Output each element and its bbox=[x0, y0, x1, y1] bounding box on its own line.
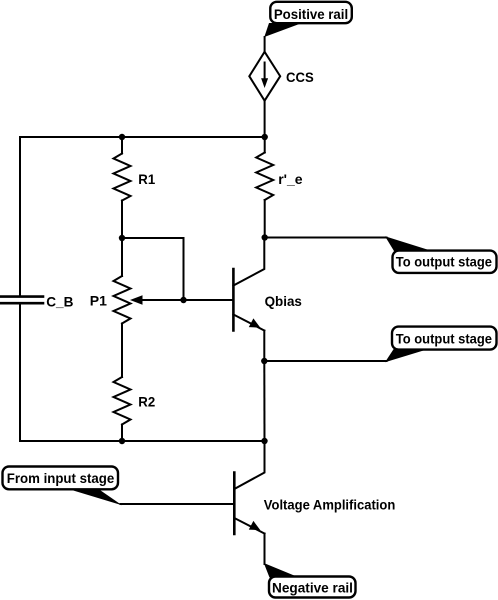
current source CCS bbox=[249, 52, 313, 101]
svg-text:r'_e: r'_e bbox=[278, 171, 303, 187]
wire wiper arrow bbox=[130, 295, 184, 304]
wire R1 to P1 junction bbox=[121, 201, 123, 239]
node top-rail / R1 junction bbox=[119, 134, 125, 140]
wire junction to P1 bbox=[121, 238, 123, 276]
transistor Qbias bbox=[184, 238, 303, 362]
wire CCS to top rail bbox=[264, 101, 266, 137]
wire P1 to R2 bbox=[121, 324, 123, 378]
wire top rail to r'_e bbox=[264, 137, 266, 153]
callout Negative rail bbox=[264, 563, 356, 598]
svg-text:CCS: CCS bbox=[286, 69, 314, 85]
svg-text:P1: P1 bbox=[90, 293, 107, 309]
transistor Voltage Amplification bbox=[234, 441, 395, 564]
node bottom-rail / R2 junction bbox=[119, 438, 125, 444]
node emitter / output 2 bbox=[261, 358, 267, 364]
wire left branch lower bbox=[19, 304, 21, 441]
svg-text:From input stage: From input stage bbox=[7, 470, 115, 486]
potentiometer P1 bbox=[90, 276, 131, 324]
svg-text:Negative rail: Negative rail bbox=[272, 580, 353, 596]
wire to output stage 2 bbox=[264, 360, 386, 362]
callout To output stage (lower) bbox=[385, 327, 497, 363]
wire to output stage 1 bbox=[265, 237, 387, 239]
resistor r'_e bbox=[256, 153, 303, 201]
svg-text:R1: R1 bbox=[138, 171, 155, 187]
capacitor C_B bbox=[0, 294, 73, 310]
svg-text:C_B: C_B bbox=[46, 294, 73, 310]
callout From input stage bbox=[3, 467, 123, 506]
resistor R2 bbox=[114, 377, 156, 425]
svg-text:R2: R2 bbox=[138, 394, 155, 410]
resistor R1 bbox=[114, 154, 156, 201]
wire junction to wiper (top) bbox=[122, 238, 184, 300]
wire top rail to R1 bbox=[121, 137, 123, 154]
wire emitter node to bottom rail bbox=[263, 361, 265, 441]
callout Positive rail bbox=[264, 2, 352, 37]
node collector / output 1 bbox=[262, 234, 268, 240]
svg-text:To output stage: To output stage bbox=[396, 254, 492, 270]
wire VAS base bbox=[121, 503, 235, 505]
wire bottom rail bbox=[20, 440, 265, 442]
node bottom-rail / VAS junction bbox=[261, 438, 267, 444]
svg-text:Positive rail: Positive rail bbox=[274, 6, 348, 22]
wire R2 to bottom rail bbox=[121, 425, 123, 442]
svg-text:To output stage: To output stage bbox=[396, 330, 492, 346]
callout To output stage (upper) bbox=[385, 236, 497, 273]
svg-text:Qbias: Qbias bbox=[265, 293, 303, 309]
wire r'_e to collector node bbox=[264, 200, 266, 238]
svg-text:Voltage Amplification: Voltage Amplification bbox=[264, 496, 396, 512]
wire top rail bbox=[20, 136, 265, 138]
wire left branch upper bbox=[19, 137, 21, 296]
node top-rail / CCS junction bbox=[262, 134, 268, 140]
wire positive rail to CCS bbox=[264, 37, 266, 52]
node wiper junction bbox=[180, 297, 186, 303]
node R1/P1 junction bbox=[119, 235, 125, 241]
